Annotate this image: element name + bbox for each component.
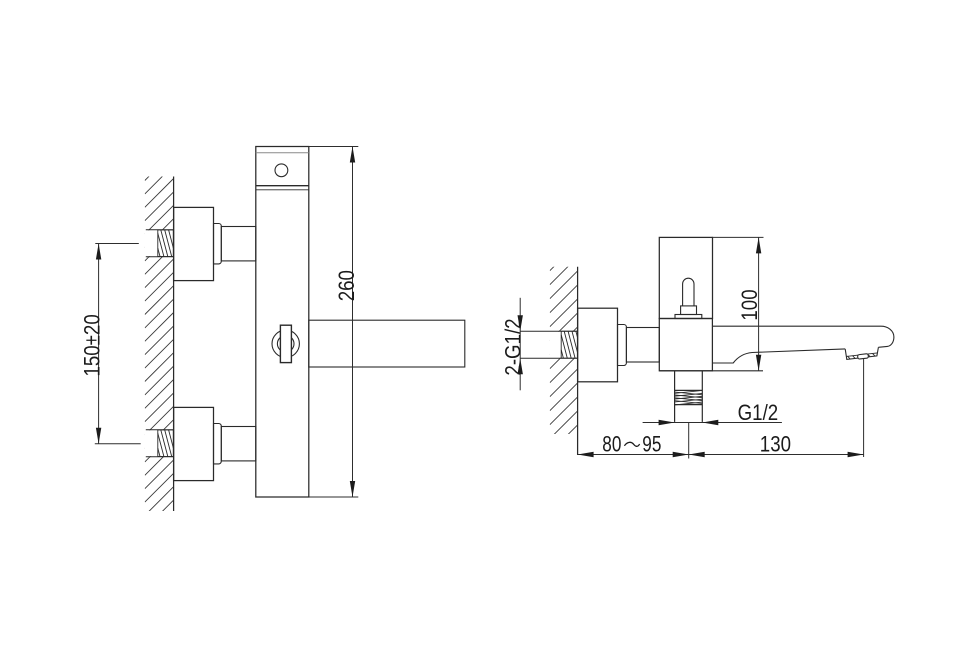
svg-text:G1/2: G1/2	[738, 401, 779, 425]
svg-text:260: 260	[335, 270, 359, 301]
svg-text:2-G1/2: 2-G1/2	[502, 318, 526, 375]
svg-text:150±20: 150±20	[81, 314, 105, 376]
svg-text:130: 130	[760, 433, 791, 457]
svg-text:100: 100	[739, 289, 763, 320]
svg-text:95: 95	[642, 432, 661, 457]
svg-text:80: 80	[602, 432, 621, 457]
